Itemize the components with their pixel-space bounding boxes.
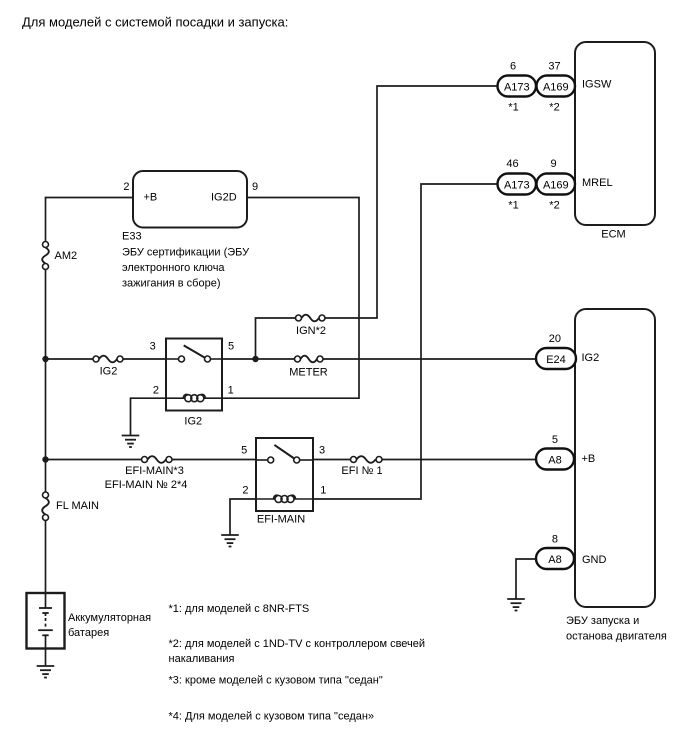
svg-text:FL MAIN: FL MAIN xyxy=(56,500,99,512)
wire: battery feed vertical upper segment xyxy=(45,197,47,242)
wire: relay EFI-MAIN pin 2 to ground xyxy=(230,499,256,535)
svg-text:E24: E24 xyxy=(546,354,566,366)
connector A169 pin 9 (MREL) xyxy=(537,174,576,195)
wire: IGSW connector down to IGN*2 fuse xyxy=(377,86,498,318)
connector E24 pin 20 (IG2) xyxy=(536,348,576,369)
wire: IG2D pin 9 to IG2 relay coil pin 1 xyxy=(222,198,359,399)
svg-text:EFI № 1: EFI № 1 xyxy=(341,465,382,477)
svg-text:20: 20 xyxy=(549,333,561,345)
svg-text:IG2D: IG2D xyxy=(211,192,237,204)
svg-text:GND: GND xyxy=(582,554,607,566)
relay IG2 xyxy=(166,339,222,411)
junction: IGN*2/METER tap xyxy=(252,356,258,362)
block E33 ECU certification xyxy=(133,171,247,228)
svg-text:EFI-MAIN № 2*4: EFI-MAIN № 2*4 xyxy=(105,479,188,491)
svg-text:EFI-MAIN*3: EFI-MAIN*3 xyxy=(125,465,184,477)
svg-text:9: 9 xyxy=(252,181,258,193)
junction: left feed EFI branch xyxy=(42,456,48,462)
svg-text:*1: *1 xyxy=(508,200,518,212)
svg-text:*1: *1 xyxy=(508,102,518,114)
wire: battery feed vertical lower segment xyxy=(45,521,47,594)
wire: EFI No 1 fuse to +B connector xyxy=(382,459,536,461)
wire: relay IG2 pin 2 to ground xyxy=(131,398,167,435)
svg-text:ЭБУ сертификации (ЭБУ: ЭБУ сертификации (ЭБУ xyxy=(122,247,250,259)
block ECM xyxy=(575,42,655,225)
connector A173 pin 46 (MREL) xyxy=(498,174,537,195)
svg-text:*1: для моделей с 8NR-FTS: *1: для моделей с 8NR-FTS xyxy=(169,603,310,615)
svg-text:IGN*2: IGN*2 xyxy=(296,325,326,337)
svg-text:*2: *2 xyxy=(549,200,559,212)
svg-text:46: 46 xyxy=(506,158,518,170)
svg-text:2: 2 xyxy=(242,485,248,497)
svg-text:EFI-MAIN: EFI-MAIN xyxy=(257,514,305,526)
ground: battery xyxy=(37,666,55,678)
svg-text:зажигания в сборе): зажигания в сборе) xyxy=(122,278,221,290)
wire: relay IG2 pin 5 to junction and METER fuse xyxy=(222,358,295,360)
svg-text:Аккумуляторная: Аккумуляторная xyxy=(68,612,151,624)
relay EFI-MAIN xyxy=(256,438,313,511)
wire: relay EFI-MAIN pin 3 to EFI No 1 fuse xyxy=(313,459,351,461)
label battery xyxy=(68,612,151,639)
svg-text:Для моделей с системой посадки: Для моделей с системой посадки и запуска… xyxy=(22,15,288,30)
wire: IG2 fuse to relay pin 3 xyxy=(123,358,166,360)
connector A8 pin 5 (+B) xyxy=(536,449,574,470)
svg-text:батарея: батарея xyxy=(68,627,109,639)
svg-text:*2: для моделей с 1ND-TV с кон: *2: для моделей с 1ND-TV с контроллером … xyxy=(169,638,426,650)
svg-text:9: 9 xyxy=(550,158,556,170)
svg-text:*4: Для моделей с кузовом типа: *4: Для моделей с кузовом типа "седан» xyxy=(169,711,375,723)
label start-stop ECU caption xyxy=(566,615,667,643)
fuse FL MAIN xyxy=(42,492,49,521)
wire: battery feed vertical middle segment xyxy=(45,270,47,493)
svg-text:A173: A173 xyxy=(504,81,530,93)
svg-text:MREL: MREL xyxy=(582,177,613,189)
svg-text:IG2: IG2 xyxy=(184,416,202,428)
svg-text:6: 6 xyxy=(510,61,516,73)
battery xyxy=(27,593,65,649)
svg-text:IG2: IG2 xyxy=(100,366,118,378)
svg-text:3: 3 xyxy=(150,341,156,353)
ground: ECU GND xyxy=(507,599,525,611)
svg-text:2: 2 xyxy=(123,181,129,193)
svg-text:накаливания: накаливания xyxy=(169,653,235,665)
wire: EFI-MAIN fuse to relay pin 5 xyxy=(172,459,256,461)
svg-text:E33: E33 xyxy=(122,231,142,243)
wire: METER fuse to E24 connector xyxy=(323,358,536,360)
svg-text:A169: A169 xyxy=(543,81,569,93)
E33 caption xyxy=(122,231,250,290)
svg-text:A8: A8 xyxy=(548,554,561,566)
svg-text:37: 37 xyxy=(548,61,560,73)
svg-text:*2: *2 xyxy=(549,102,559,114)
wire: GND connector to ground xyxy=(516,559,536,599)
svg-text:A169: A169 xyxy=(543,179,569,191)
svg-text:5: 5 xyxy=(241,445,247,457)
svg-text:IG2: IG2 xyxy=(582,352,600,364)
wire: IGN*2 branch from junction xyxy=(256,318,296,359)
svg-text:останова двигателя: останова двигателя xyxy=(566,631,667,643)
fuse IG2 xyxy=(93,356,123,363)
svg-text:METER: METER xyxy=(289,367,328,379)
svg-text:+B: +B xyxy=(582,453,596,465)
wire: left feed to EFI-MAIN fuse xyxy=(46,459,142,461)
wire: battery negative to ground xyxy=(45,649,47,667)
fuse METER xyxy=(295,356,324,363)
footnote *2 xyxy=(169,638,426,665)
svg-text:электронного ключа: электронного ключа xyxy=(122,262,225,274)
svg-text:AM2: AM2 xyxy=(55,250,78,262)
svg-text:1: 1 xyxy=(320,485,326,497)
wire: +B feed horizontal to E33 pin 2 xyxy=(46,197,134,199)
svg-text:+B: +B xyxy=(144,192,158,204)
fuse IGN*2 xyxy=(296,315,326,322)
connector A169 pin 37 (IGSW) xyxy=(537,76,576,97)
svg-text:5: 5 xyxy=(228,341,234,353)
ground: relay IG2 pin 2 xyxy=(122,436,140,448)
wire: MREL connector down to EFI-MAIN relay coil pin 1 xyxy=(313,184,498,499)
svg-text:ЭБУ запуска и: ЭБУ запуска и xyxy=(566,615,639,627)
svg-text:ECM: ECM xyxy=(601,229,625,241)
fuse AM2 xyxy=(42,242,49,270)
junction: left feed IG2 branch xyxy=(42,356,48,362)
svg-text:IGSW: IGSW xyxy=(582,79,612,91)
svg-text:*3: кроме моделей с кузовом ти: *3: кроме моделей с кузовом типа "седан" xyxy=(169,675,383,687)
svg-text:3: 3 xyxy=(319,445,325,457)
connector A8 pin 8 (GND) xyxy=(536,548,574,569)
wire: IGN*2 fuse to IGSW drop xyxy=(325,317,378,319)
svg-text:8: 8 xyxy=(552,534,558,546)
svg-text:2: 2 xyxy=(153,385,159,397)
svg-text:A8: A8 xyxy=(548,454,561,466)
ground: relay EFI-MAIN pin 2 xyxy=(221,535,239,547)
fuse EFI-MAIN*3 xyxy=(142,456,173,463)
fuse EFI No 1 xyxy=(351,456,383,463)
svg-text:A173: A173 xyxy=(504,179,530,191)
svg-text:1: 1 xyxy=(228,385,234,397)
connector A173 pin 6 (IGSW) xyxy=(498,76,537,97)
svg-text:5: 5 xyxy=(552,434,558,446)
wire: left feed to IG2 fuse xyxy=(46,358,94,360)
block start-stop ECU xyxy=(575,309,655,607)
